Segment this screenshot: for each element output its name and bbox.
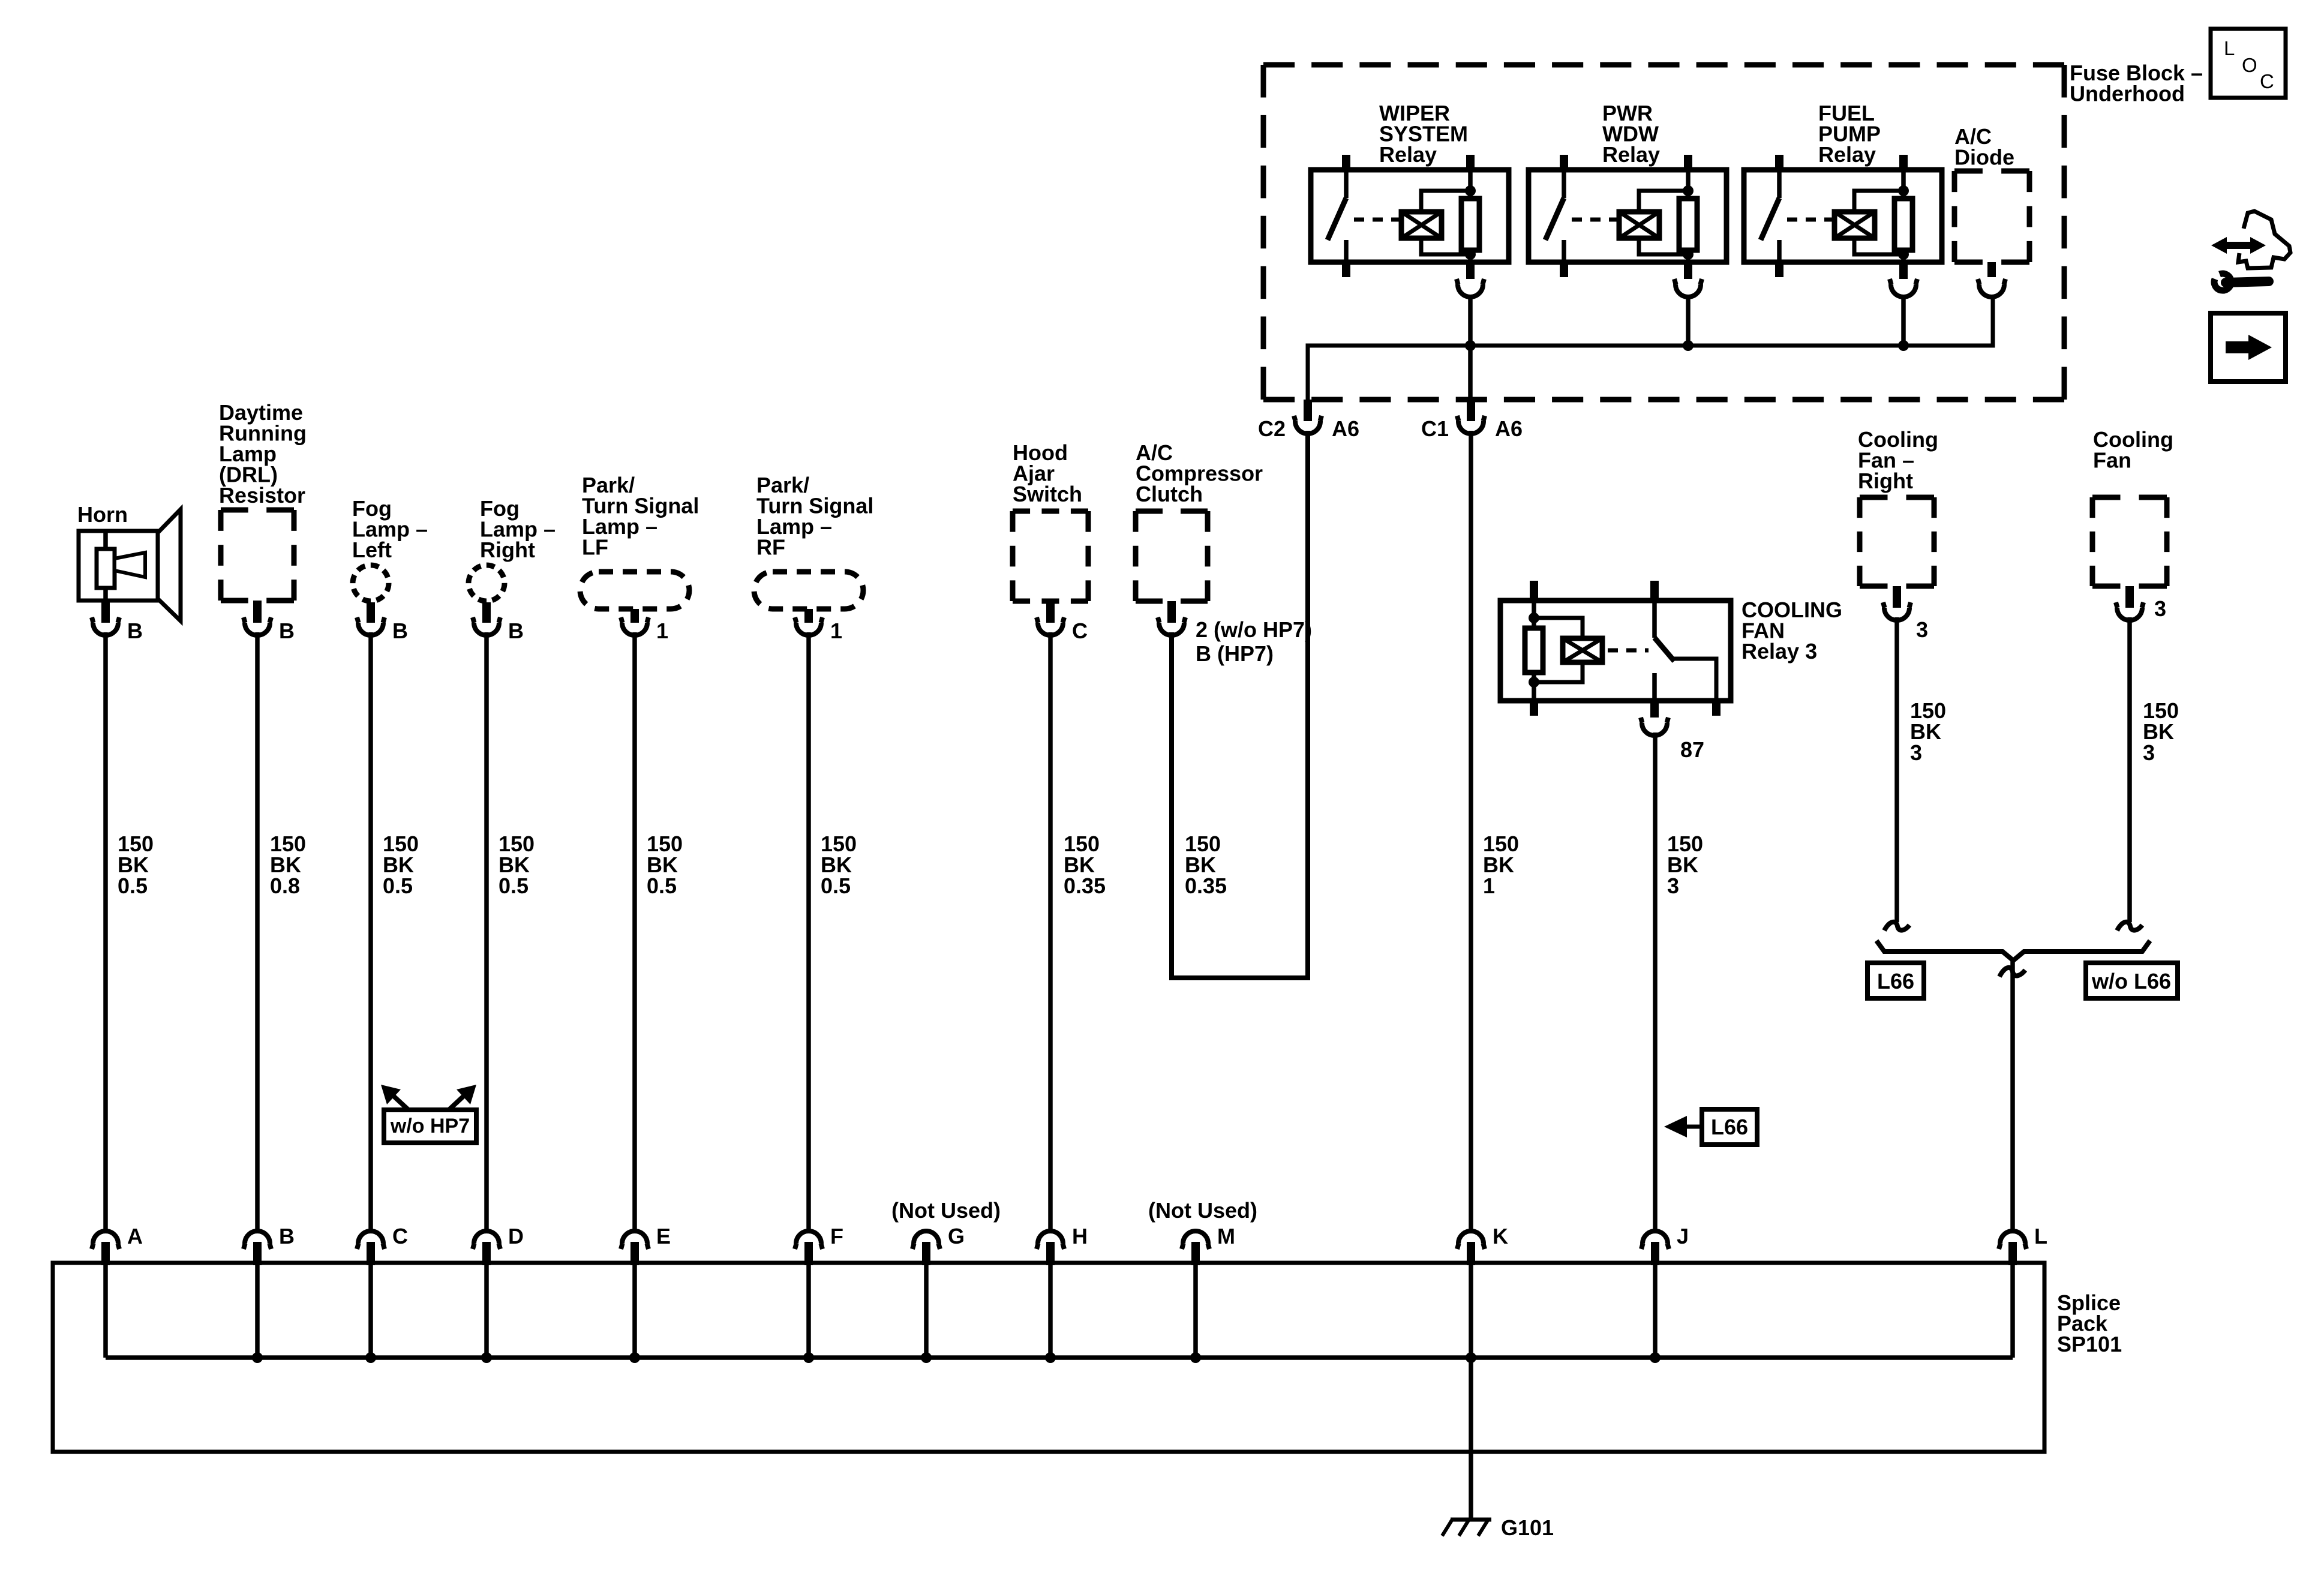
svg-text:SP101: SP101 [2057, 1332, 2122, 1356]
svg-text:A6: A6 [1332, 416, 1359, 441]
svg-text:87: 87 [1680, 737, 1704, 762]
svg-text:1: 1 [656, 619, 668, 643]
svg-text:B: B [279, 1224, 295, 1248]
svg-text:1: 1 [830, 619, 842, 643]
svg-text:Horn: Horn [77, 502, 128, 527]
svg-text:C2: C2 [1258, 416, 1286, 441]
svg-text:C: C [2260, 70, 2274, 92]
svg-text:Relay: Relay [1818, 142, 1876, 167]
svg-text:Relay: Relay [1602, 142, 1660, 167]
svg-text:D: D [508, 1224, 524, 1248]
svg-text:(Not Used): (Not Used) [1148, 1198, 1257, 1223]
svg-text:G: G [948, 1224, 965, 1248]
svg-text:0.8: 0.8 [270, 873, 300, 898]
svg-text:G101: G101 [1501, 1515, 1554, 1540]
svg-text:Clutch: Clutch [1136, 482, 1203, 506]
svg-text:L66: L66 [1711, 1115, 1748, 1139]
svg-text:w/o HP7: w/o HP7 [390, 1115, 470, 1137]
svg-text:O: O [2242, 54, 2257, 76]
svg-text:3: 3 [1667, 873, 1679, 898]
svg-text:L: L [2034, 1224, 2047, 1248]
svg-text:0.5: 0.5 [647, 873, 677, 898]
svg-text:3: 3 [1916, 617, 1928, 642]
svg-text:Fan: Fan [2093, 448, 2131, 473]
svg-text:A6: A6 [1495, 416, 1523, 441]
svg-text:0.5: 0.5 [118, 873, 148, 898]
svg-text:B: B [127, 619, 143, 643]
svg-text:F: F [830, 1224, 843, 1248]
svg-text:0.35: 0.35 [1185, 873, 1227, 898]
svg-text:Right: Right [480, 538, 535, 562]
svg-text:1: 1 [1483, 873, 1495, 898]
svg-text:B: B [392, 619, 408, 643]
svg-text:A: A [127, 1224, 143, 1248]
svg-text:0.5: 0.5 [383, 873, 413, 898]
svg-text:C1: C1 [1421, 416, 1449, 441]
svg-text:E: E [656, 1224, 671, 1248]
svg-text:Diode: Diode [1954, 145, 2014, 170]
svg-text:B: B [279, 619, 295, 643]
svg-text:0.5: 0.5 [821, 873, 851, 898]
svg-text:B: B [508, 619, 524, 643]
svg-text:L66: L66 [1877, 969, 1914, 993]
svg-text:0.35: 0.35 [1064, 873, 1106, 898]
svg-text:3: 3 [2143, 740, 2155, 765]
svg-text:L: L [2224, 37, 2235, 59]
svg-text:LF: LF [582, 535, 608, 560]
svg-text:Left: Left [352, 538, 392, 562]
svg-text:K: K [1493, 1224, 1508, 1248]
svg-text:M: M [1217, 1224, 1235, 1248]
svg-text:2 (w/o HP7): 2 (w/o HP7) [1196, 617, 1312, 642]
svg-text:J: J [1677, 1224, 1689, 1248]
svg-text:H: H [1072, 1224, 1088, 1248]
svg-text:Resistor: Resistor [219, 483, 305, 508]
svg-text:Switch: Switch [1013, 482, 1082, 506]
svg-text:RF: RF [756, 535, 785, 560]
svg-text:w/o L66: w/o L66 [2091, 969, 2171, 993]
svg-text:C: C [1072, 619, 1088, 643]
svg-text:3: 3 [2154, 596, 2166, 621]
svg-text:C: C [392, 1224, 408, 1248]
svg-text:Relay: Relay [1379, 142, 1437, 167]
svg-text:0.5: 0.5 [499, 873, 529, 898]
svg-text:B (HP7): B (HP7) [1196, 641, 1274, 666]
svg-text:Underhood: Underhood [2070, 82, 2185, 106]
svg-text:(Not Used): (Not Used) [891, 1198, 1001, 1223]
svg-text:3: 3 [1910, 740, 1922, 765]
svg-text:Right: Right [1858, 469, 1913, 493]
svg-text:Relay 3: Relay 3 [1742, 639, 1817, 664]
